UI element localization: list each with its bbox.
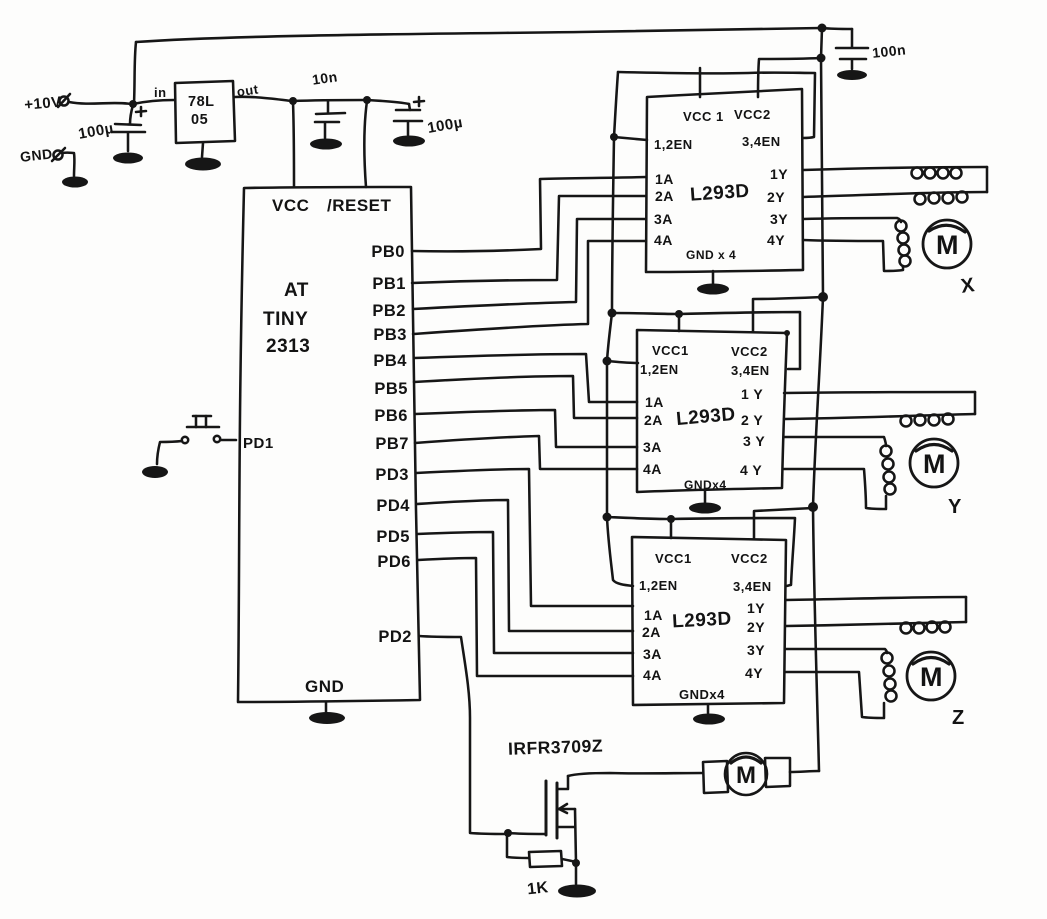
svg-text:M: M	[923, 449, 946, 479]
svg-text:1 Y: 1 Y	[741, 386, 763, 402]
terminal GND input	[19, 146, 65, 165]
svg-text:GND: GND	[305, 677, 344, 696]
ground below U1	[309, 702, 345, 724]
wire 1Y U3 to winding XA	[803, 167, 987, 170]
svg-text:2Y: 2Y	[747, 619, 765, 635]
motor Y	[910, 439, 958, 487]
wire 4Y U5 to winding ZB	[786, 672, 884, 718]
svg-text:4A: 4A	[654, 232, 673, 248]
svg-text:GND x 4: GND x 4	[686, 248, 736, 262]
wire PD2 to Q1 gate node	[419, 636, 506, 834]
coil winding XA top	[912, 168, 962, 179]
svg-text:10n: 10n	[311, 68, 339, 87]
svg-text:100µ: 100µ	[426, 114, 464, 137]
svg-text:M: M	[736, 762, 757, 789]
svg-text:2A: 2A	[655, 188, 674, 204]
wire node B to C4	[822, 28, 852, 29]
wire VCC2 pin U5	[754, 508, 813, 538]
svg-text:1K: 1K	[526, 879, 549, 898]
wire node C to VCC pin	[293, 102, 294, 186]
svg-text:PD4: PD4	[376, 497, 410, 515]
coil winding XB	[896, 221, 911, 267]
wire PD6 to U5 4A	[418, 558, 633, 676]
terminal +10V	[24, 94, 70, 114]
svg-text:PB3: PB3	[373, 326, 407, 344]
svg-text:L293D: L293D	[672, 608, 733, 632]
svg-text:M: M	[920, 662, 943, 692]
resistor R1 1K	[529, 851, 562, 867]
node D junction	[363, 96, 371, 104]
wire PB2 to U3 3A	[413, 219, 646, 309]
wire 2Y U3 to winding XA	[803, 192, 987, 197]
wire motor M4 to +V bus	[790, 771, 819, 772]
svg-text:05: 05	[191, 112, 208, 128]
svg-text:/RESET: /RESET	[327, 196, 392, 215]
node dot VCC1 U4	[675, 310, 683, 318]
svg-text:1Y: 1Y	[747, 600, 765, 616]
svg-text:3A: 3A	[643, 646, 662, 662]
wire 2Y U4 to winding YA	[784, 414, 975, 419]
wire node D to /RESET pin	[364, 101, 367, 187]
coil winding XA bottom	[915, 192, 968, 205]
coil winding ZA	[901, 622, 951, 634]
svg-text:3A: 3A	[643, 439, 662, 455]
ground below C2	[310, 139, 342, 150]
driver IC U4 L293D	[637, 330, 790, 492]
wire PD5 to U5 3A	[417, 532, 633, 653]
wire regulator out to node C	[235, 97, 292, 101]
wire VCC rail U4 with 3,4EN drop	[612, 312, 800, 369]
wire PD3 to U5 1A	[416, 469, 633, 606]
svg-text:1,2EN: 1,2EN	[640, 362, 679, 377]
driver IC U3 L293D	[646, 89, 803, 272]
wire VCC1 pin U3	[699, 68, 702, 97]
svg-text:2313: 2313	[266, 336, 310, 357]
svg-text:PD1: PD1	[243, 435, 274, 452]
svg-text:in: in	[154, 85, 167, 100]
wire source node to ground	[575, 864, 578, 884]
svg-text:100µ: 100µ	[77, 120, 115, 143]
ground below C3	[393, 136, 425, 147]
transistor Q1 IRFR3709Z	[546, 776, 576, 863]
svg-text:3,4EN: 3,4EN	[731, 363, 770, 378]
wire node D to C3	[367, 100, 409, 104]
wire switch to ground	[157, 441, 182, 464]
svg-text:VCC2: VCC2	[731, 551, 768, 566]
+V bus right vertical	[813, 28, 823, 771]
svg-text:PB2: PB2	[372, 302, 406, 320]
wire top +V rail	[136, 28, 821, 42]
wire winding XA right edge	[986, 167, 989, 192]
wire VCC2 pin U4	[753, 297, 823, 331]
wire R1 to source node	[562, 859, 576, 862]
svg-text:PD5: PD5	[376, 528, 410, 546]
svg-text:4 Y: 4 Y	[740, 462, 762, 478]
ground below U3	[697, 271, 729, 295]
wire EN rail U3 with 3,4EN drop	[618, 72, 815, 138]
wire VCC2 pin U3	[758, 58, 821, 97]
svg-text:VCC2: VCC2	[734, 107, 771, 122]
svg-text:M: M	[936, 230, 959, 260]
node C junction	[289, 97, 297, 105]
node dot source R1	[572, 859, 580, 867]
motor Z	[907, 652, 955, 700]
svg-text:Y: Y	[948, 496, 962, 518]
coil winding ZB	[882, 653, 897, 702]
wire PB3 to U3 4A	[413, 241, 646, 334]
node dot VCC2 U3	[817, 54, 826, 63]
svg-text:VCC 1: VCC 1	[683, 109, 724, 124]
svg-text:PB1: PB1	[372, 275, 406, 293]
wire node A to regulator in	[133, 100, 174, 104]
wire 3Y U4 to winding YB	[784, 437, 886, 446]
node A junction	[129, 100, 137, 108]
wire +10V to node A	[69, 102, 131, 104]
svg-text:GND: GND	[19, 146, 53, 165]
svg-text:3,4EN: 3,4EN	[742, 134, 781, 149]
node dot rail U4	[608, 309, 617, 318]
wire PB0 to U3 1A	[412, 177, 646, 251]
wire PD4 to U5 2A	[417, 500, 633, 631]
svg-text:100n: 100n	[871, 41, 906, 60]
wire gate node to Q1 gate	[508, 833, 545, 834]
IC U1 ATtiny2313	[238, 187, 420, 702]
svg-text:VCC: VCC	[272, 196, 309, 215]
svg-text:1,2EN: 1,2EN	[639, 578, 678, 593]
wire winding ZA right edge	[965, 597, 968, 622]
svg-text:1,2EN: 1,2EN	[654, 137, 693, 152]
push-button switch S1 at PD1	[182, 416, 220, 443]
coil winding YB	[881, 446, 896, 495]
ground below switch	[142, 466, 168, 478]
svg-text:GNDx4: GNDx4	[679, 687, 725, 702]
wire VCC1 pin U4	[678, 314, 681, 331]
svg-text:4Y: 4Y	[745, 665, 763, 681]
wire PB7 to U4 4A	[415, 436, 637, 469]
wire PB1 to U3 2A	[412, 196, 646, 283]
ground symbol at input	[62, 177, 88, 188]
node dot VCC1 U5	[667, 515, 675, 523]
svg-text:1A: 1A	[655, 171, 674, 187]
svg-text:3,4EN: 3,4EN	[733, 579, 772, 594]
capacitor C1 100u	[77, 105, 146, 151]
svg-text:+10V: +10V	[24, 94, 63, 114]
wire 1Y U5 to winding ZA	[786, 597, 966, 600]
motor X	[923, 220, 971, 268]
svg-text:X: X	[960, 274, 977, 298]
node dot 1,2EN U4	[603, 357, 612, 366]
capacitor C3 100u	[394, 97, 464, 137]
coil winding YA	[901, 414, 954, 427]
svg-text:L293D: L293D	[689, 181, 750, 206]
capacitor C4 100n	[836, 29, 907, 69]
wire gate node down to R1	[507, 834, 528, 858]
svg-text:VCC1: VCC1	[655, 551, 692, 566]
VCC/EN bus left vertical	[607, 72, 633, 586]
ground below C1	[113, 153, 143, 164]
node dot +V to U4	[818, 292, 828, 302]
svg-text:1Y: 1Y	[770, 166, 788, 182]
wire Q1 drain to motor M4	[568, 773, 703, 776]
wire 1,2EN U4	[607, 361, 638, 363]
svg-text:3 Y: 3 Y	[743, 433, 765, 449]
wire 3Y U5 to winding ZB	[786, 649, 887, 653]
svg-text:1A: 1A	[645, 394, 664, 410]
svg-text:VCC2: VCC2	[731, 344, 768, 359]
node dot rail U5	[603, 513, 612, 522]
svg-text:Z: Z	[952, 707, 965, 729]
node dot Q1 gate	[504, 829, 512, 837]
wire 3Y U3 to winding XB	[803, 218, 901, 222]
svg-text:PB6: PB6	[374, 407, 408, 425]
wire PB6 to U4 3A	[415, 410, 637, 447]
svg-text:2A: 2A	[642, 624, 661, 640]
wire VCC rail U5 with 3,4EN drop	[607, 517, 795, 586]
svg-text:3A: 3A	[654, 211, 673, 227]
ground below U5	[693, 705, 725, 725]
wire 2Y U5 to winding ZA	[786, 622, 966, 626]
svg-text:TINY: TINY	[263, 309, 308, 330]
svg-text:PB0: PB0	[371, 243, 405, 261]
wire PB4 to U4 1A	[414, 354, 637, 402]
wire 1,2EN U3	[614, 137, 647, 140]
ground below U4	[689, 490, 721, 514]
ground below U2	[185, 143, 221, 171]
driver IC U5 L293D	[632, 537, 786, 705]
svg-text:2Y: 2Y	[767, 189, 785, 205]
svg-text:4A: 4A	[643, 667, 662, 683]
svg-text:AT: AT	[284, 280, 309, 301]
node B junction top rail	[818, 24, 827, 33]
svg-text:2A: 2A	[644, 412, 663, 428]
wire PB5 to U4 2A	[414, 376, 637, 418]
svg-text:L293D: L293D	[675, 404, 736, 430]
svg-text:3Y: 3Y	[770, 211, 788, 227]
svg-text:PB7: PB7	[375, 435, 409, 453]
svg-text:4A: 4A	[643, 461, 662, 477]
wire node C to node D	[293, 100, 366, 101]
svg-text:3Y: 3Y	[747, 642, 765, 658]
node dot +V to U5	[808, 502, 818, 512]
svg-text:IRFR3709Z: IRFR3709Z	[508, 736, 604, 759]
svg-text:PD6: PD6	[377, 553, 411, 571]
wire PD1 to switch	[221, 439, 236, 442]
wire 4Y U3 to winding XB	[803, 240, 903, 271]
wire GND terminal to ground	[62, 153, 74, 176]
ground below C4	[837, 70, 867, 80]
svg-text:PB4: PB4	[373, 352, 407, 370]
svg-text:2 Y: 2 Y	[741, 412, 763, 428]
capacitor C2 10n	[311, 68, 345, 138]
svg-text:PB5: PB5	[374, 380, 408, 398]
motor M4	[703, 753, 790, 795]
voltage regulator U2 78L05	[175, 81, 235, 143]
wire 1Y U4 to winding YA	[784, 392, 975, 393]
svg-text:1A: 1A	[644, 607, 663, 623]
wire winding YA right edge	[974, 392, 977, 414]
svg-text:PD3: PD3	[375, 466, 409, 484]
wire 4Y U4 to winding YB	[784, 469, 886, 509]
wire VCC1 pin U5	[670, 519, 673, 538]
node dot 1,2EN U3	[610, 133, 618, 141]
svg-text:PD2: PD2	[378, 628, 412, 646]
svg-text:4Y: 4Y	[767, 232, 785, 248]
wire node A riser to top rail	[134, 42, 136, 103]
ground below Q1	[558, 885, 596, 898]
svg-text:VCC1: VCC1	[652, 343, 689, 358]
svg-text:78L: 78L	[188, 94, 215, 110]
